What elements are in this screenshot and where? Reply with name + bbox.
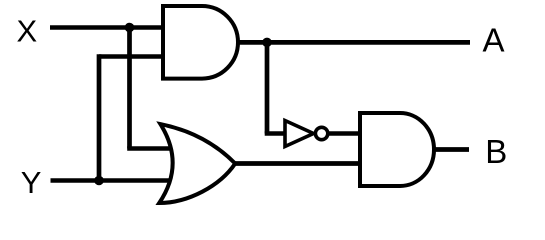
junction dot on A wire [262,38,272,48]
and-gate AND2 (NOT A AND (X OR Y)) [360,113,434,186]
wire X branch vertical to OR [127,28,132,149]
not-gate bubble [315,127,327,139]
not-gate inverter triangle [285,121,314,147]
wire OR output to AND2 [233,161,362,166]
junction dot on X wire [125,23,135,33]
junction dot on Y wire [94,176,104,186]
and-gate AND1 (X AND Y) [163,6,238,79]
wire A branch vertical to NOT [265,42,270,133]
or-gate OR1 (X OR Y) [159,124,235,203]
svg-text:A: A [483,21,505,58]
wire A branch horizontal to NOT input [265,131,287,136]
wire AND1 output to A [236,40,470,45]
wire Y input horizontal [51,178,173,183]
wire Y branch horizontal to AND1 input [99,54,165,59]
svg-text:B: B [485,133,507,170]
wire Y branch vertical [97,54,102,180]
svg-text:X: X [17,14,38,49]
wire X input horizontal [50,25,165,30]
wire NOT output to AND2 [328,131,363,136]
svg-text:Y: Y [21,165,42,200]
wire X branch horizontal to OR input [127,146,173,151]
wire AND2 output to B [433,147,469,152]
